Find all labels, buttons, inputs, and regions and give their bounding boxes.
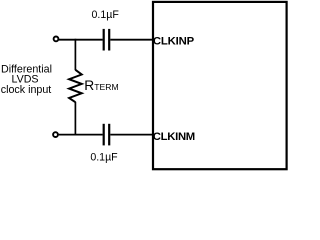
label: RTERM value (84, 78, 118, 93)
wire: resistor RTERM down to bottom wire (74, 102, 76, 136)
svg-text:CLKINP: CLKINP (153, 35, 195, 47)
node: top input terminal (open circle) (54, 37, 59, 42)
svg-text:clock input: clock input (1, 84, 52, 96)
node: bottom input terminal (open circle) (53, 132, 58, 137)
svg-text:0.1µF: 0.1µF (90, 151, 118, 163)
svg-text:TERM: TERM (94, 82, 118, 92)
wire: top junction down to resistor RTERM (74, 39, 76, 70)
wire: capacitor C1 to CLKINP pin (110, 39, 154, 41)
svg-text:0.1µF: 0.1µF (92, 9, 120, 21)
label: Differential LVDS clock input (1, 63, 52, 96)
svg-text:CLKINM: CLKINM (153, 131, 195, 143)
wire: top terminal to capacitor C1 (59, 39, 103, 41)
wire: bottom terminal to capacitor C2 (59, 134, 103, 136)
wire: capacitor C2 to CLKINM pin (110, 134, 154, 136)
capacitor C1 0.1uF (series, top) (104, 29, 110, 51)
IC box U1 (153, 2, 287, 169)
svg-text:R: R (84, 78, 94, 93)
capacitor C2 0.1uF (series, bottom) (104, 124, 110, 146)
resistor RTERM (zigzag) (69, 70, 82, 102)
